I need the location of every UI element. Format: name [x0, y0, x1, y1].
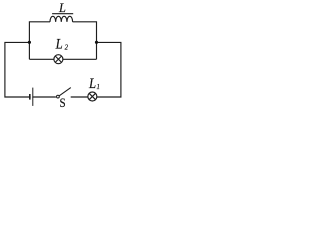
- svg-text:L: L: [88, 76, 96, 92]
- svg-text:2: 2: [65, 45, 69, 52]
- svg-text:1: 1: [97, 84, 100, 91]
- svg-text:L: L: [58, 1, 66, 15]
- svg-text:L: L: [55, 37, 63, 53]
- svg-text:S: S: [60, 95, 66, 110]
